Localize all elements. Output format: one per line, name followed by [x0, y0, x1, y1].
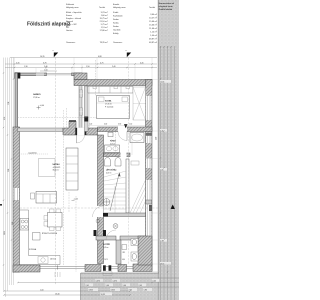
- svg-text:2,35: 2,35: [160, 240, 163, 242]
- svg-text:2,05: 2,05: [160, 169, 163, 171]
- dining table: [48, 213, 63, 228]
- bedroom door gap: [118, 127, 127, 133]
- black wall stubs hall: [94, 230, 97, 236]
- svg-text:2,40: 2,40: [112, 66, 116, 68]
- main top wall hatched: [74, 80, 152, 86]
- corner step wall garage/main: [74, 73, 87, 80]
- top dimension numbers: [16, 56, 144, 72]
- svg-text:1,60 m²: 1,60 m²: [101, 14, 108, 17]
- dark sill bedroom window: [146, 133, 152, 136]
- garage right wall thin: [79, 76, 82, 129]
- stove: [20, 219, 29, 231]
- extension lines from building to chains: [15, 58, 175, 272]
- svg-text:5,75 m²: 5,75 m²: [101, 23, 108, 26]
- svg-text:0,90: 0,90: [118, 124, 121, 126]
- svg-text:17,86 m²: 17,86 m²: [33, 96, 40, 99]
- room label ELŐTÉR: [103, 243, 111, 249]
- svg-text:10,35: 10,35: [40, 56, 45, 58]
- bath window in right wall: [146, 136, 152, 143]
- svg-text:Előtér + lépcsőtér: Előtér + lépcsőtér: [66, 11, 82, 14]
- svg-text:0,45: 0,45: [153, 281, 157, 283]
- dim numbers below bedroom: [89, 124, 132, 126]
- bedroom window in right wall: [146, 96, 152, 120]
- chairs: [44, 209, 61, 231]
- svg-text:1,00: 1,00: [123, 285, 127, 287]
- stair right wall: [126, 159, 129, 213]
- svg-text:Szoba: Szoba: [113, 26, 120, 28]
- svg-text:4,625: 4,625: [89, 290, 94, 292]
- left edge mark: [0, 204, 2, 206]
- dashed projection lines: [13, 58, 158, 286]
- svg-text:GARÁZS: GARÁZS: [33, 93, 41, 96]
- pillar top-left corner: [15, 73, 21, 79]
- window in left wall: [14, 188, 20, 200]
- top dimension ticks: [14, 63, 153, 68]
- wc toilet lower: [131, 252, 138, 261]
- dark cap on stub wall: [69, 120, 76, 122]
- svg-text:Közlekedő: Közlekedő: [113, 16, 123, 18]
- top dimension chain: [5, 58, 157, 72]
- void box with X bedroom right: [133, 87, 146, 120]
- svg-text:15,66 m²: 15,66 m²: [149, 24, 157, 27]
- svg-text:FÜRDŐ: FÜRDŐ: [110, 140, 117, 143]
- svg-text:Helyiség neve: Helyiség neve: [66, 7, 79, 9]
- svg-text:13,40: 13,40: [55, 293, 60, 295]
- washbasin counter: [105, 145, 120, 153]
- wc sink: [122, 245, 127, 250]
- section marker top right: [126, 50, 132, 57]
- garage bottom wall thin: [18, 128, 64, 132]
- svg-text:Nappali: Nappali: [66, 21, 73, 23]
- winder stair treads: [104, 171, 126, 213]
- svg-text:+0,00: +0,00: [40, 105, 45, 107]
- svg-text:2,05: 2,05: [8, 169, 10, 172]
- left wall thick hatched: [13, 127, 20, 272]
- level marker garage: [37, 105, 45, 110]
- svg-text:Fürdő: Fürdő: [113, 12, 119, 14]
- svg-text:Szomszédos tel: Szomszédos tel: [159, 2, 175, 5]
- svg-text:10,35: 10,35: [4, 231, 6, 235]
- svg-text:4,30: 4,30: [160, 130, 163, 132]
- svg-text:Kamra: Kamra: [66, 15, 73, 17]
- kitchen island: [33, 233, 41, 241]
- svg-text:1,10 m²: 1,10 m²: [150, 31, 157, 34]
- section marker top left: [53, 50, 59, 57]
- svg-text:15,75 m²: 15,75 m²: [100, 17, 108, 20]
- coffee table: [31, 193, 35, 199]
- svg-text:2,41: 2,41: [86, 285, 90, 287]
- svg-text:3,60 m²: 3,60 m²: [150, 13, 157, 16]
- living room label: [53, 163, 61, 172]
- svg-text:Fürdő + WC: Fürdő + WC: [66, 24, 77, 26]
- circle marker hall: [113, 224, 118, 229]
- room label SZOBA: [105, 100, 114, 109]
- svg-text:36,10 m²: 36,10 m²: [53, 169, 60, 172]
- svg-text:Összesen:: Összesen:: [66, 41, 76, 44]
- door swing living entry: [77, 135, 85, 143]
- bottom window előtér: [106, 266, 109, 268]
- small shelf right room: [131, 161, 139, 165]
- svg-text:Emelet: Emelet: [113, 3, 120, 6]
- csapadék note: [17, 153, 48, 155]
- svg-text:Földszinti alaprajz: Földszinti alaprajz: [27, 22, 71, 28]
- door swing hall: [93, 206, 104, 217]
- bottom wall right corner hatched: [133, 264, 152, 272]
- garage left wall thin: [15, 73, 18, 128]
- rug square living room: [39, 159, 56, 177]
- svg-text:Konyha + étkező: Konyha + étkező: [66, 17, 82, 20]
- svg-text:2,05: 2,05: [139, 285, 143, 287]
- svg-text:0,45: 0,45: [16, 62, 20, 64]
- svg-text:6,88: 6,88: [98, 56, 102, 58]
- svg-text:telepített kertv: telepített kertv: [159, 5, 174, 8]
- L wall garage bottom right: [63, 121, 98, 135]
- stair label: [110, 140, 117, 146]
- entrance wall block: [85, 265, 101, 272]
- svg-text:1,00 m²: 1,00 m²: [150, 34, 157, 37]
- svg-text:Helyiség neve: Helyiség neve: [113, 7, 126, 9]
- svg-text:0,45: 0,45: [140, 62, 144, 64]
- svg-text:Terület: Terület: [149, 6, 155, 9]
- svg-text:4,37 m²: 4,37 m²: [106, 171, 112, 174]
- bathtub: [130, 133, 144, 143]
- svg-text:Önálló lakóhá: Önálló lakóhá: [159, 8, 173, 11]
- bottom window wc: [127, 266, 134, 268]
- svg-text:78,35 m²: 78,35 m²: [100, 41, 108, 44]
- svg-text:Terület: Terület: [99, 6, 105, 9]
- svg-text:12,65: 12,65: [160, 81, 164, 83]
- svg-text:9,23 m²: 9,23 m²: [101, 11, 108, 14]
- svg-text:Összesen:: Összesen:: [113, 41, 123, 44]
- svg-text:1,30: 1,30: [24, 66, 28, 68]
- svg-text:17,35 m²: 17,35 m²: [105, 103, 112, 106]
- door swing előtér: [106, 230, 116, 240]
- right wall hatched: [146, 80, 153, 272]
- terrace step lines below bottom wall: [55, 272, 112, 278]
- left chain ticks: [3, 72, 14, 272]
- circle marker stairs: [103, 199, 110, 206]
- bottom dimension chain: [4, 278, 179, 295]
- svg-text:21,10 m²: 21,10 m²: [100, 20, 108, 23]
- svg-text:1,80: 1,80: [144, 290, 148, 292]
- svg-text:3,76: 3,76: [43, 62, 47, 64]
- bottom dimension numbers: [40, 279, 159, 296]
- svg-text:4,625: 4,625: [111, 290, 116, 292]
- svg-text:17,86 m²: 17,86 m²: [100, 29, 108, 32]
- internal dim line bath: [131, 132, 133, 155]
- stair section left wall: [98, 135, 104, 264]
- bottom wall left hatched: [13, 265, 40, 272]
- stair arrow: [110, 174, 119, 211]
- svg-text:1,475: 1,475: [104, 259, 108, 261]
- terrain texture bottom strip: [81, 273, 159, 300]
- garage door opening in top wall: [47, 72, 72, 76]
- door opening living room entry: [77, 128, 85, 136]
- cabinet living room: [66, 148, 78, 190]
- svg-text:Gardrób: Gardrób: [113, 30, 121, 32]
- svg-text:Garázs: Garázs: [66, 30, 72, 32]
- garage top wall: [20, 73, 82, 76]
- wc toilet upper: [131, 239, 138, 246]
- terrain texture right strip: [159, 0, 180, 300]
- svg-text:1,50: 1,50: [8, 102, 10, 105]
- svg-text:ELŐTÉR: ELŐTÉR: [103, 243, 111, 246]
- svg-text:1,475: 1,475: [96, 281, 101, 283]
- large window right wall lower: [146, 180, 152, 237]
- svg-text:48,87 m²: 48,87 m²: [149, 41, 157, 44]
- svg-text:csapadékvíz: csapadékvíz: [28, 152, 37, 154]
- wardrobe band bedroom: [88, 87, 133, 94]
- svg-text:0,90: 0,90: [122, 259, 125, 261]
- svg-text:5,40: 5,40: [155, 137, 157, 140]
- svg-text:Szoba: Szoba: [113, 23, 120, 25]
- bed bedroom: [97, 96, 130, 119]
- kitchen counter left: [20, 210, 61, 265]
- black marker bedroom door: [124, 124, 128, 128]
- svg-text:4,30: 4,30: [104, 124, 107, 126]
- room schedule table: [66, 3, 157, 44]
- svg-text:LÉPCSŐHÁZ: LÉPCSŐHÁZ: [106, 169, 116, 172]
- utility corner block: [138, 236, 152, 265]
- svg-text:SZOBA: SZOBA: [105, 100, 112, 103]
- internal dim line bedroom: [89, 87, 91, 127]
- window in garage top wall: [36, 73, 44, 76]
- svg-text:WC: WC: [66, 27, 70, 29]
- svg-text:Földszint: Földszint: [66, 3, 74, 6]
- svg-text:1,00: 1,00: [40, 289, 44, 291]
- svg-text:1,50: 1,50: [86, 66, 90, 68]
- bedroom door swing: [118, 132, 127, 141]
- svg-text:3,45 m²: 3,45 m²: [103, 246, 109, 249]
- radiator garage right wall: [79, 90, 82, 97]
- living room window band bottom: [40, 265, 85, 269]
- right chain value patches: [155, 0, 171, 300]
- wc partition wall: [116, 240, 121, 264]
- wc toilets pair: [105, 158, 122, 166]
- svg-text:1,51 m²: 1,51 m²: [101, 26, 108, 29]
- stair window in right wall: [146, 159, 152, 169]
- svg-text:1,50: 1,50: [129, 124, 132, 126]
- small circle hall b: [96, 219, 100, 223]
- left dimension chain: [4, 58, 14, 298]
- svg-text:NAPPALI: NAPPALI: [53, 163, 61, 166]
- svg-text:1,10: 1,10: [44, 70, 48, 72]
- svg-text:11,66 m²: 11,66 m²: [149, 27, 157, 30]
- bottom wall pier: [118, 265, 127, 272]
- bedroom bottom wall hatched: [98, 127, 153, 132]
- section marker right in terrain: [171, 205, 176, 210]
- svg-text:F: laminált: F: laminált: [105, 106, 114, 109]
- hall wall above előtér: [96, 236, 116, 240]
- bedroom left wall thin: [85, 86, 89, 132]
- bath bottom wall: [104, 153, 131, 157]
- svg-text:KONYHA: KONYHA: [29, 248, 37, 251]
- wall below stairs: [104, 213, 146, 217]
- entrance door jambs: [103, 265, 106, 271]
- svg-text:+ÉTKEZŐ: +ÉTKEZŐ: [53, 166, 61, 169]
- svg-text:5,75 m²: 5,75 m²: [110, 142, 116, 145]
- svg-text:Erkély: Erkély: [113, 33, 119, 35]
- svg-text:Szoba: Szoba: [113, 19, 120, 21]
- svg-text:4,55: 4,55: [4, 117, 6, 120]
- garage interior label: [33, 93, 41, 99]
- right dimension chain in terrain: [161, 46, 175, 300]
- svg-text:10,57 m²: 10,57 m²: [149, 17, 157, 20]
- svg-text:+0,45: +0,45: [74, 199, 78, 201]
- black stub below stairs: [103, 213, 108, 217]
- svg-text:1,00: 1,00: [106, 285, 110, 287]
- svg-text:48,87 m²: 48,87 m²: [149, 38, 157, 41]
- svg-text:1,475: 1,475: [113, 281, 118, 283]
- under-stair diagonals right room: [130, 180, 146, 213]
- svg-text:15,66 m²: 15,66 m²: [149, 20, 157, 23]
- bottom chain ticks: [3, 282, 152, 296]
- svg-text:4,75: 4,75: [100, 62, 104, 64]
- plot label text on right strip: [159, 2, 175, 11]
- sofa: [36, 192, 57, 204]
- svg-text:10,35: 10,35: [101, 294, 106, 296]
- door gap hall: [97, 206, 104, 217]
